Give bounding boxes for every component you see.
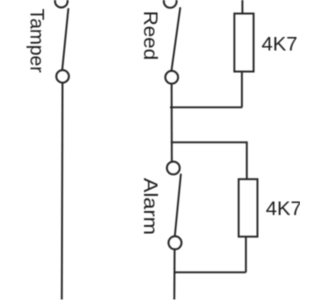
switch Alarm: arm (175, 174, 181, 237)
wire: R2 bottom lead (245, 237, 247, 273)
svg-text:Reed: Reed (139, 11, 160, 60)
wire: node junction horizontal to R2 top (171, 142, 247, 179)
wire: Alarm bottom lead down to bottom edge (173, 249, 175, 299)
switch Tamper: arm (62, 8, 68, 70)
svg-text:4K7: 4K7 (262, 34, 298, 56)
wire: Reed bottom to Alarm top (main vertical) (171, 84, 173, 162)
resistor R2 4K7 body (239, 179, 258, 237)
svg-text:Alarm: Alarm (139, 178, 160, 235)
wire: node junction horizontal to R1 bottom (170, 106, 242, 108)
switch Reed: top contact circle (164, 0, 177, 8)
switch Alarm: top contact circle (167, 162, 180, 175)
switch Tamper: top contact circle (55, 0, 68, 8)
wire: bottom horizontal joining R2 to main line (174, 271, 246, 273)
switch Tamper: bottom contact circle (56, 70, 69, 83)
switch Alarm: bottom contact circle (169, 236, 182, 249)
resistor R1 4K7 body (234, 14, 253, 72)
wire: Tamper lower lead to bottom edge (61, 83, 64, 300)
switch Reed: bottom contact circle (165, 71, 178, 84)
wire: R1 bottom lead (241, 72, 243, 108)
svg-text:Tamper: Tamper (26, 9, 47, 74)
wire: R1 top lead from top edge (241, 0, 243, 13)
svg-text:4K7: 4K7 (266, 198, 300, 220)
switch Reed: arm (172, 7, 181, 70)
